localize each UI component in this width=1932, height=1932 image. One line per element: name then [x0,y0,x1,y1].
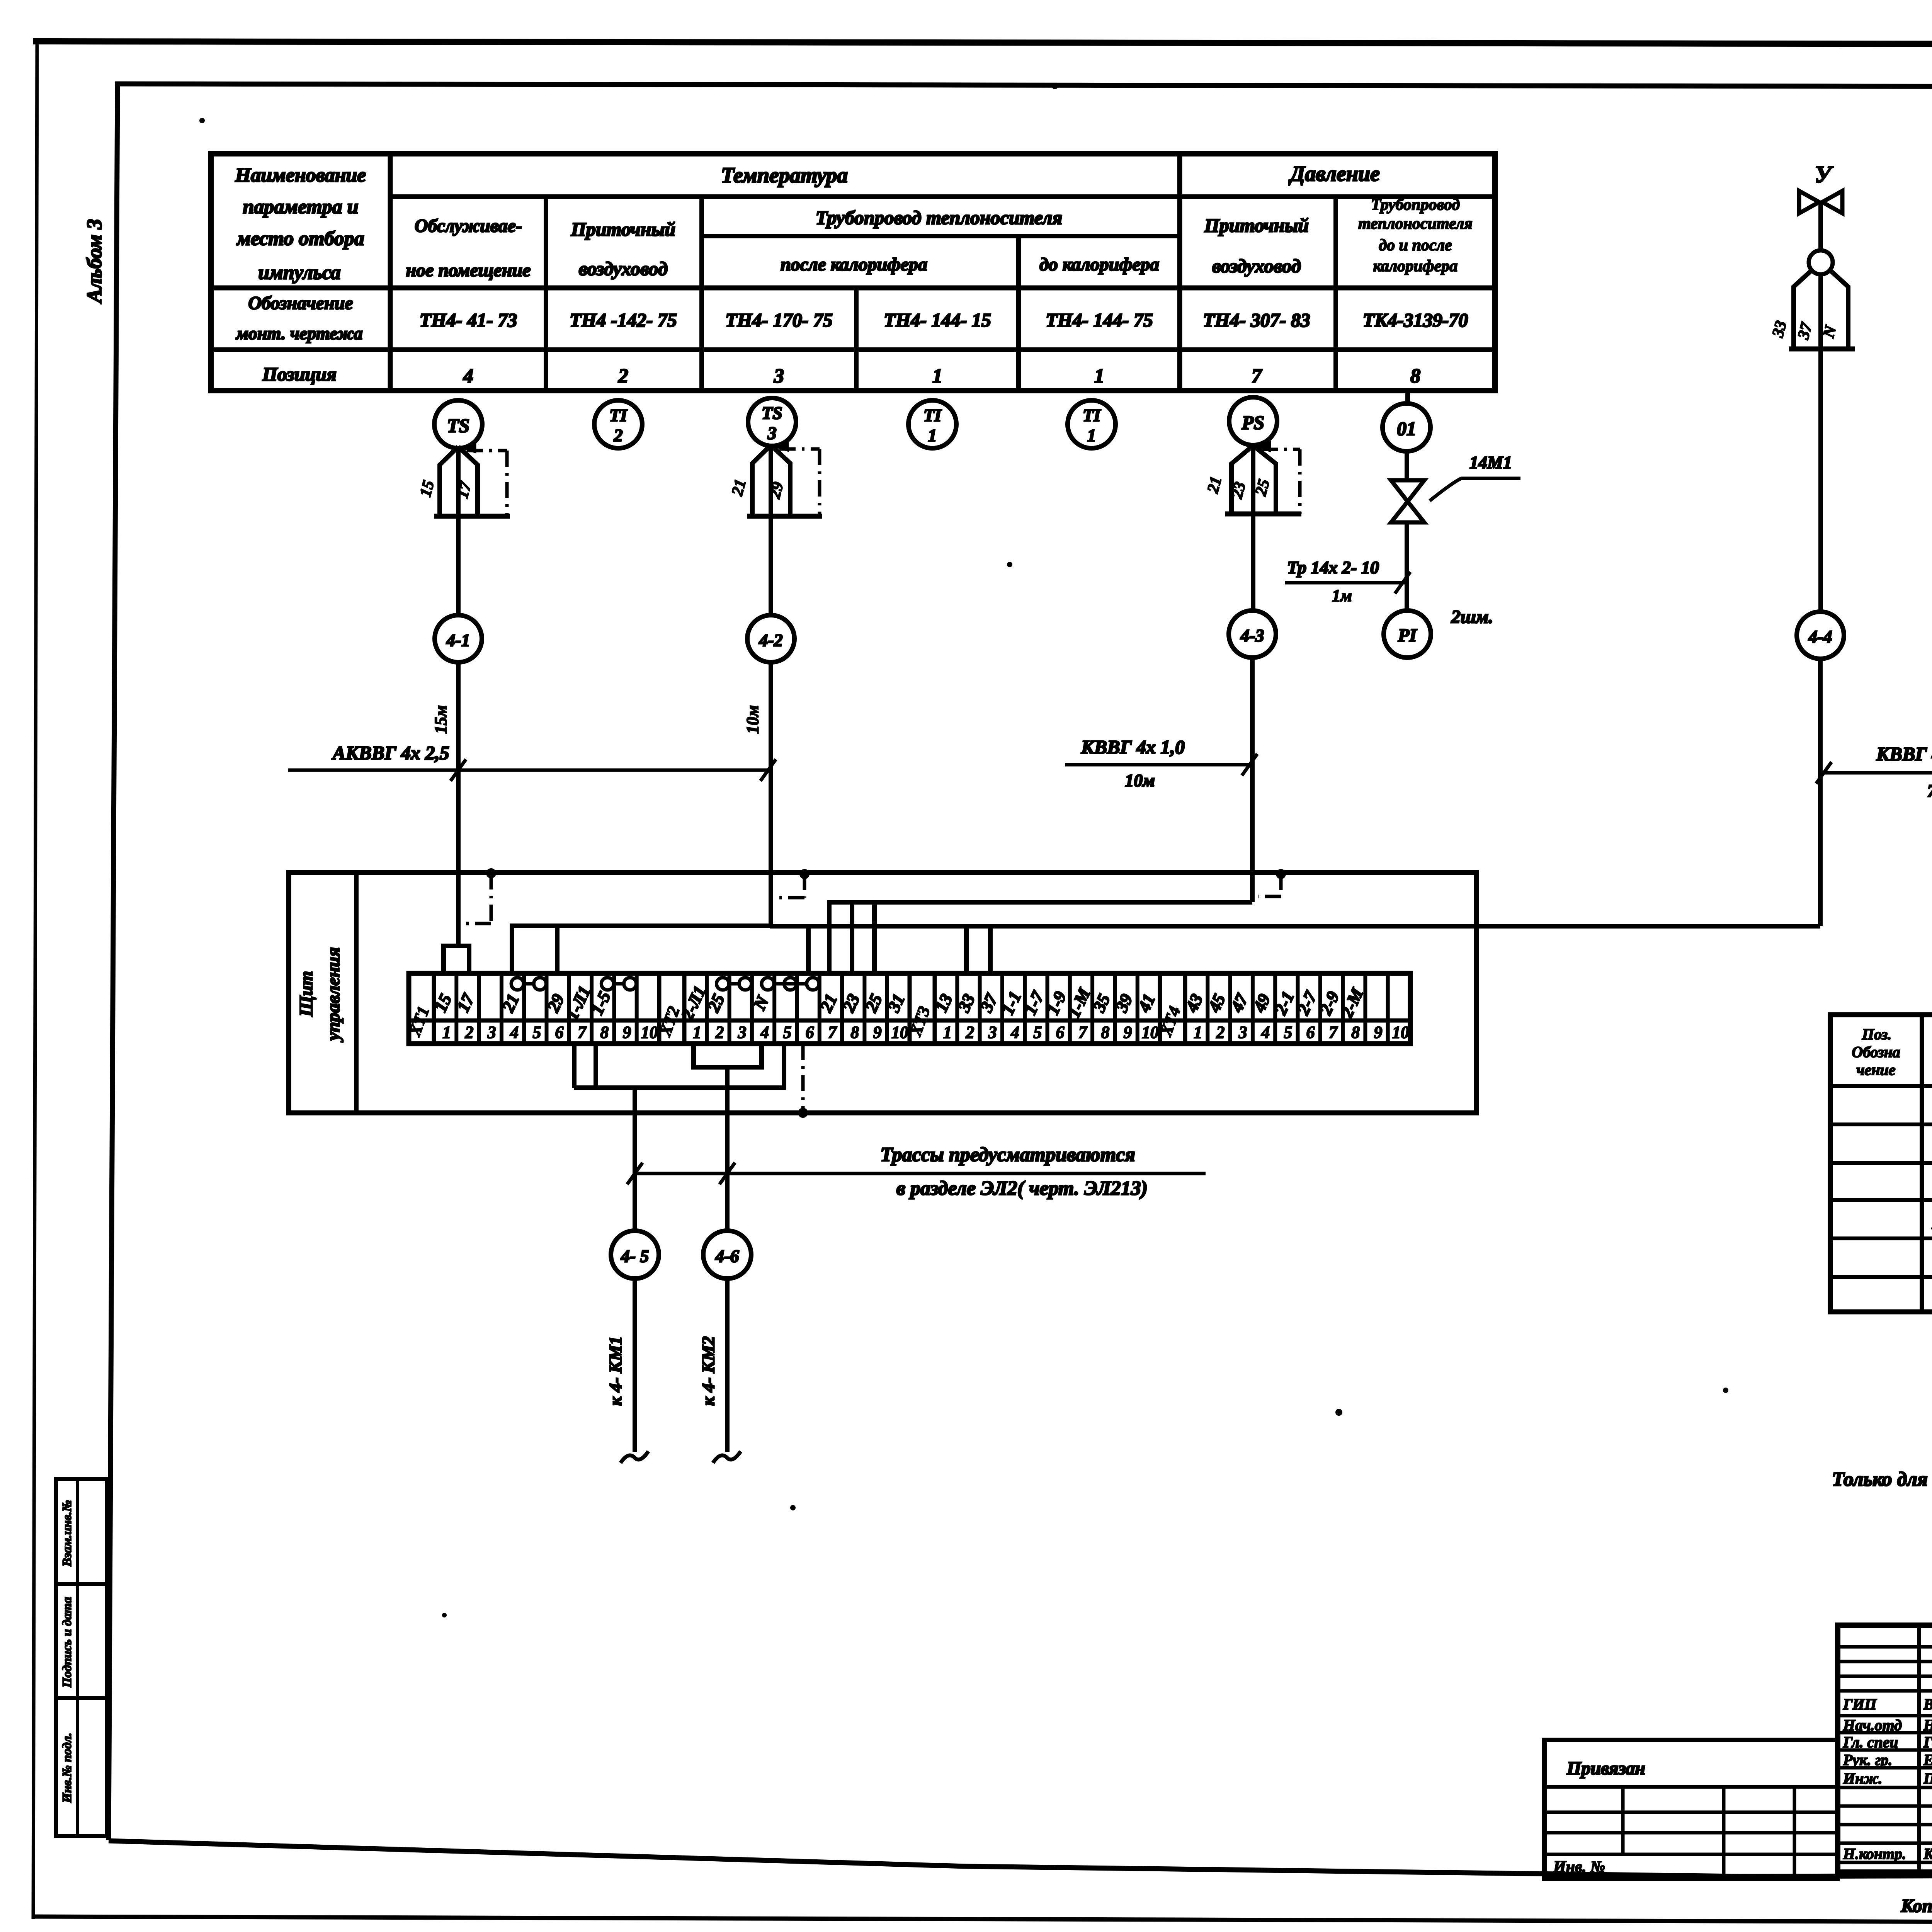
wire actuator to 4-4 [1818,349,1823,612]
svg-text:4: 4 [463,365,473,387]
wire 4-6 to KM2 [725,1279,730,1452]
instrument TI-2 (pos 2) [594,400,642,448]
svg-text:2: 2 [614,425,623,445]
privyazan table [1544,1740,1838,1879]
svg-text:9: 9 [623,1023,631,1042]
svg-text:Температура: Температура [721,163,848,187]
svg-text:ТI: ТI [1083,405,1101,425]
svg-text:5: 5 [1284,1023,1292,1042]
svg-text:1: 1 [1194,1023,1202,1042]
drawing frame top [115,84,1932,87]
svg-text:КВВГ 4х 1,0: КВВГ 4х 1,0 [1081,736,1185,758]
title block outline [1838,1625,1932,1872]
wire O1 to valve 14M1 [1405,451,1409,480]
terminal block XT3 [908,973,912,1044]
svg-text:Приходько: Приходько [1923,1770,1932,1787]
actuator valve (bowtie) [1799,191,1819,213]
wire to 4-6 [725,1067,730,1231]
svg-text:чение: чение [1857,1061,1896,1078]
svg-text:ТН4- 144- 15: ТН4- 144- 15 [884,309,991,331]
svg-text:ТН4 -142- 75: ТН4 -142- 75 [570,309,677,331]
drawing frame left [109,84,117,1840]
svg-text:воздуховод: воздуховод [1212,255,1301,277]
terminal block XT2 [657,973,662,1044]
panel wiring from 4-2 to XT1:4 and XT1:6 [512,926,771,973]
wire 4-2 to panel [769,662,773,926]
svg-text:7: 7 [1078,1023,1088,1042]
svg-text:3: 3 [767,423,777,443]
svg-text:14М1: 14М1 [1469,452,1512,472]
cable marker 4-6 [703,1231,751,1279]
svg-text:8: 8 [1410,365,1420,387]
wire TS to 4-1 [456,516,461,615]
svg-text:1: 1 [932,365,942,387]
svg-text:6: 6 [806,1023,814,1042]
svg-text:в разделе ЭЛ2( черт. ЭЛ21: в разделе ЭЛ2( черт. ЭЛ213) [896,1177,1148,1199]
svg-text:Нач.отд: Нач.отд [1843,1716,1902,1734]
instrument TS (pos 4) [434,400,482,448]
svg-text:У: У [1815,162,1833,188]
sensor housing of TS-3 (wires 21,29) [752,445,771,516]
svg-text:Поз.: Поз. [1862,1026,1891,1043]
svg-text:Наименование: Наименование [235,164,366,186]
instrument O1 (pos 8) [1383,403,1430,451]
svg-text:управления: управления [323,947,344,1042]
svg-text:7: 7 [578,1023,587,1042]
svg-text:Инж.: Инж. [1843,1770,1882,1787]
cable callout КВВГ 4х1,0 7м [1821,771,1932,775]
svg-text:Кириенко: Кириенко [1923,1845,1932,1862]
valve 14M1 (hourglass) [1391,480,1424,502]
svg-text:6: 6 [1306,1023,1315,1042]
wire PS to 4-3 [1251,514,1255,610]
svg-text:3: 3 [1238,1023,1247,1042]
page outer left border [33,40,37,1919]
wire 4-1 to panel [456,662,461,946]
left stamp cell Подпись и дата [56,1584,107,1698]
svg-text:4: 4 [510,1023,519,1042]
jumper XT2:4-5-6 [762,978,774,990]
svg-text:1: 1 [442,1023,451,1042]
instrument TI-1 (pos 1 before heater) [1068,400,1116,448]
wire XT1:7,8 to bus [572,1044,577,1088]
svg-text:Елинсон: Елинсон [1923,1751,1932,1769]
spec table grid [1830,1015,1932,1312]
svg-text:РS: РS [1242,412,1264,433]
svg-text:ТК4-3139-70: ТК4-3139-70 [1363,309,1468,331]
svg-text:до и после: до и после [1379,236,1452,254]
svg-text:АКВВГ 4х 2,5: АКВВГ 4х 2,5 [332,742,449,764]
actuator head circle [1809,250,1833,274]
control panel Щит управления outline [289,872,1476,1113]
svg-text:параметра и: параметра и [243,196,358,218]
svg-text:4-1: 4-1 [446,630,470,650]
svg-text:7: 7 [1329,1023,1338,1042]
wire 4-4 to panel [1818,659,1823,926]
left stamp cell Инв.№ подл. [56,1698,107,1836]
svg-text:Трассы предусматриваются: Трассы предусматриваются [880,1144,1135,1166]
cable callout АКВВГ 4х2,5 15м [288,769,771,772]
svg-text:Подпись и дата: Подпись и дата [60,1597,74,1688]
wire valve to PI [1405,522,1409,611]
instrument TS-3 (pos 3) [748,398,796,446]
svg-text:01: 01 [1397,418,1416,439]
wire 4-3 to panel [1250,658,1255,902]
svg-text:Обслуживае-: Обслуживае- [415,216,522,236]
svg-text:калорифера: калорифера [1373,257,1458,275]
instrument PS (pos 7) [1229,397,1277,445]
cable marker 4-5 [611,1231,659,1279]
svg-text:ТН4- 307- 83: ТН4- 307- 83 [1203,309,1310,331]
cable callout КВВГ 4х1,0 10м [1065,763,1252,767]
svg-text:ное помещение: ное помещение [406,260,531,281]
svg-text:Трубопровод: Трубопровод [1371,196,1460,214]
terminal block XT4 [1158,973,1162,1044]
cable marker 4-4 [1797,612,1844,659]
svg-text:место отбора: место отбора [236,228,364,250]
page outer bottom border [33,1917,1932,1923]
svg-text:1: 1 [928,425,937,445]
ground dash-dot from XT2:6 [801,1044,805,1113]
panel wiring from 4-3 to XT2:7,8,9 [829,902,1252,973]
svg-text:Инв.№ подл.: Инв.№ подл. [60,1733,74,1803]
svg-text:2шм.: 2шм. [1451,607,1493,627]
svg-text:Щит: Щит [296,971,316,1017]
svg-text:ТН4- 144- 75: ТН4- 144- 75 [1046,309,1153,331]
svg-text:до калорифера: до калорифера [1039,254,1159,275]
svg-text:4: 4 [760,1023,769,1042]
svg-text:5: 5 [1033,1023,1042,1042]
title block signature grid [1917,1625,1921,1872]
svg-text:Приточный: Приточный [1204,214,1309,236]
svg-text:8: 8 [850,1023,859,1042]
cable marker 4-3 [1229,611,1276,658]
svg-text:3: 3 [487,1023,496,1042]
svg-text:ГИП: ГИП [1843,1696,1877,1713]
svg-text:КВВГ 4х 1,0: КВВГ 4х 1,0 [1876,743,1932,765]
svg-text:Обозна: Обозна [1852,1043,1900,1061]
wire table to O1 [1405,391,1410,403]
svg-text:Горохов: Горохов [1923,1733,1932,1751]
svg-text:7: 7 [1252,365,1262,387]
svg-text:5: 5 [783,1023,791,1042]
svg-text:ТН4- 170- 75: ТН4- 170- 75 [725,309,833,331]
svg-text:Взам.инв.№: Взам.инв.№ [60,1500,74,1567]
terminal block XT1 [407,973,411,1044]
svg-text:1м: 1м [1332,586,1352,605]
svg-text:Трубопровод теплоносителя: Трубопровод теплоносителя [816,207,1063,228]
cable marker 4-1 [435,615,482,662]
svg-text:10м: 10м [743,705,762,734]
svg-text:Только для: Только для [1832,1468,1928,1490]
svg-text:2: 2 [715,1023,724,1042]
panel wiring from 4-4 to XT2:6, XT3:2, XT3:3 [770,924,1820,929]
svg-text:1: 1 [1087,425,1096,445]
svg-text:2: 2 [965,1023,974,1042]
svg-text:8: 8 [1101,1023,1109,1042]
svg-text:4-3: 4-3 [1240,626,1264,645]
svg-text:ТI: ТI [923,405,942,425]
cable 4-1 termination box [444,946,469,973]
svg-text:1: 1 [1094,365,1104,387]
bus wire to XT2:5 [574,1044,784,1088]
actuator housing (wires 33,37,N) [1794,270,1811,349]
wire valve to actuator head [1818,202,1823,251]
svg-text:4-4: 4-4 [1808,627,1832,646]
cable 4-1 entry marker [486,868,496,878]
svg-text:Тр 14х 2- 10: Тр 14х 2- 10 [1287,558,1379,577]
svg-text:импульса: импульса [258,262,340,284]
svg-text:9: 9 [1374,1023,1383,1042]
wire 4-5 to KM1 [633,1279,637,1452]
svg-text:после калорифера: после калорифера [781,254,927,275]
cable 4-3 entry marker [1276,869,1286,879]
wire to 4-5 [633,1088,637,1231]
cable marker 4-2 [747,615,794,662]
svg-text:монт. чертежа: монт. чертежа [236,323,363,343]
svg-text:4: 4 [1261,1023,1270,1042]
svg-text:Обозначение: Обозначение [248,293,353,313]
svg-text:4-2: 4-2 [759,630,782,650]
svg-text:4-6: 4-6 [715,1246,739,1266]
svg-text:10м: 10м [1125,770,1155,790]
svg-text:Н.контр.: Н.контр. [1843,1845,1906,1862]
svg-text:ТS: ТS [447,415,469,436]
svg-text:7: 7 [828,1023,837,1042]
jumper XT1:4-5 [511,978,524,990]
svg-text:Копир: Касьяненко: Копир: Касьяненко [1901,1896,1932,1916]
terminal strip outline [409,973,1410,1044]
instrument TI-1 (pos 1 after heater) [908,400,956,448]
page outer top border band [33,41,1932,45]
svg-text:ТН4- 41- 73: ТН4- 41- 73 [420,309,517,331]
drawing frame bottom [109,1841,1932,1876]
svg-text:к 4- КМ1: к 4- КМ1 [605,1336,625,1406]
jumper wire XT2:1 to XT2:4 [694,1044,762,1067]
cable 4-2 entry marker [799,869,810,879]
svg-text:воздуховод: воздуховод [579,258,668,279]
svg-text:к 4- КМ2: к 4- КМ2 [698,1336,718,1406]
svg-text:5: 5 [532,1023,541,1042]
svg-text:3: 3 [774,365,784,387]
svg-text:2: 2 [464,1023,473,1042]
svg-text:9: 9 [1124,1023,1132,1042]
jumper XT2:2-3 [716,978,729,990]
jumper XT1:8-9 [601,978,614,990]
left stamp cell Взам.инв.№ [56,1479,107,1584]
svg-text:3: 3 [738,1023,747,1042]
svg-text:Рук. гр.: Рук. гр. [1843,1751,1892,1769]
svg-text:2: 2 [618,365,628,387]
svg-text:теплоносителя: теплоносителя [1358,215,1473,233]
svg-text:Позиция: Позиция [262,363,337,385]
svg-text:1: 1 [693,1023,701,1042]
svg-text:4: 4 [1010,1023,1019,1042]
svg-text:7м: 7м [1927,781,1932,801]
svg-text:Инв. №: Инв. № [1553,1858,1605,1876]
svg-text:10: 10 [1392,1023,1409,1042]
svg-text:1: 1 [943,1023,952,1042]
svg-text:8: 8 [600,1023,609,1042]
svg-text:4- 5: 4- 5 [621,1246,649,1266]
svg-text:ТS: ТS [762,403,782,423]
sensor housing of TS (wires 15,17) [440,447,458,516]
svg-text:15м: 15м [431,705,450,734]
parameter table grid [211,154,1495,391]
svg-text:Нижник: Нижник [1923,1716,1932,1734]
svg-text:2: 2 [1216,1023,1225,1042]
svg-text:Альбом 3: Альбом 3 [83,219,106,304]
paper specks [1052,83,1058,89]
manometer PI [1384,611,1431,658]
svg-text:ТI: ТI [609,405,628,425]
sensor housing of PS (wires 21,23,25) [1231,446,1253,514]
svg-text:Воеводина: Воеводина [1923,1696,1932,1713]
control panel partition [354,872,359,1113]
svg-text:6: 6 [555,1023,564,1042]
svg-text:Привязан: Привязан [1566,1758,1645,1779]
svg-text:РI: РI [1398,625,1417,646]
svg-text:8: 8 [1351,1023,1360,1042]
svg-text:3: 3 [988,1023,997,1042]
wire TS-3 to 4-2 [769,516,773,615]
svg-text:Гл. спец: Гл. спец [1843,1733,1898,1751]
svg-text:Приточный: Приточный [571,218,675,240]
svg-text:6: 6 [1056,1023,1065,1042]
svg-text:9: 9 [873,1023,882,1042]
svg-text:Давление: Давление [1288,162,1380,186]
